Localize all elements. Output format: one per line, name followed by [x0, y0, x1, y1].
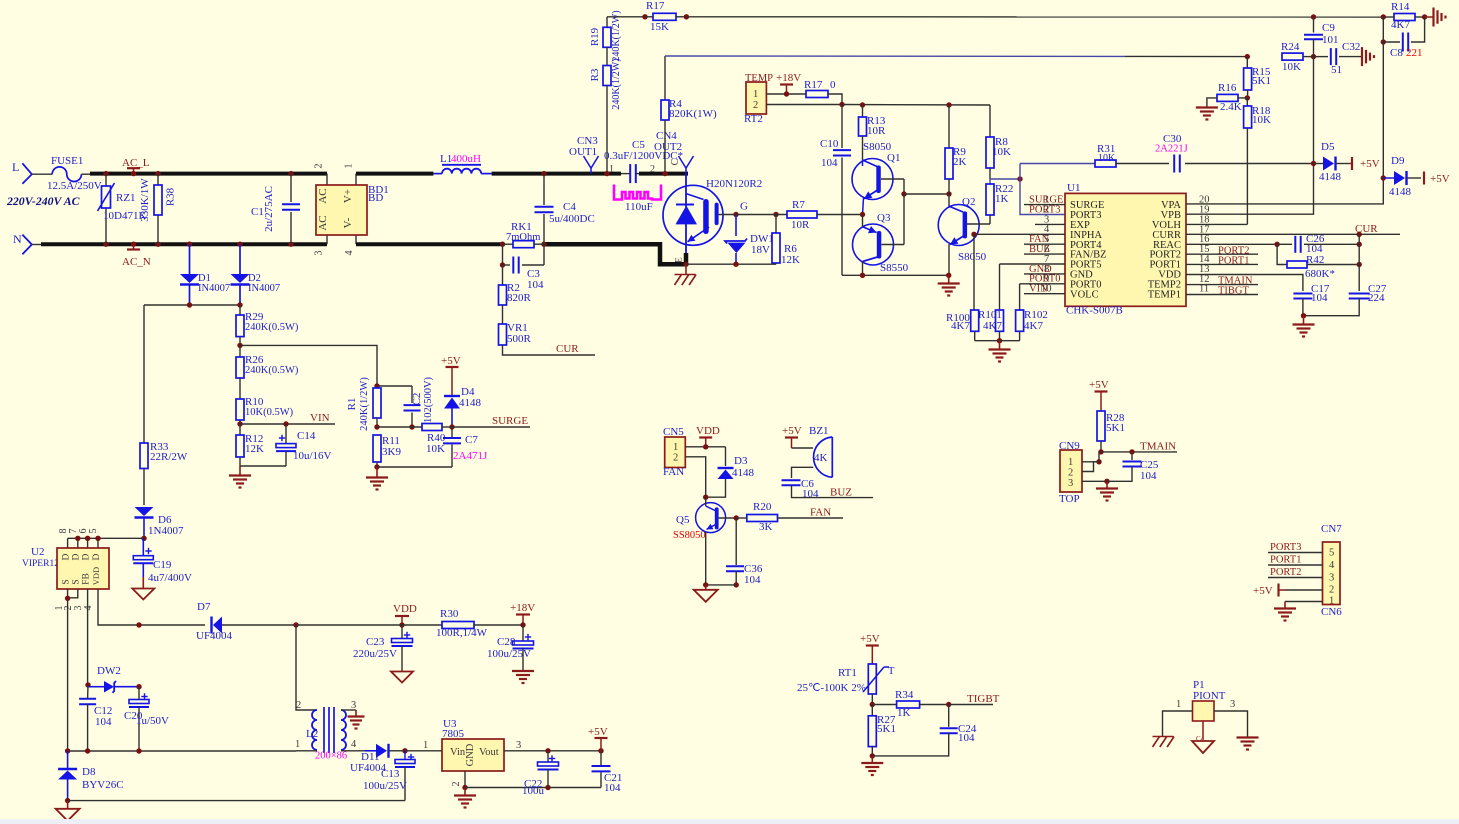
- svg-text:PORT1: PORT1: [1218, 256, 1249, 267]
- svg-text:L: L: [12, 160, 19, 174]
- wire bottom return: [68, 800, 405, 802]
- svg-text:1: 1: [673, 442, 678, 453]
- wire U3 gnd rail: [465, 785, 601, 790]
- svg-text:D9: D9: [1391, 155, 1405, 167]
- svg-text:TIBGT: TIBGT: [1218, 286, 1249, 297]
- svg-text:CN7: CN7: [1321, 523, 1342, 535]
- wire FAN net: [778, 507, 844, 519]
- capacitor C12: [79, 685, 112, 751]
- wire Q5 emitter rail: [703, 582, 736, 587]
- svg-text:S8550: S8550: [880, 262, 909, 274]
- svg-text:4: 4: [1329, 560, 1335, 571]
- resistor R13: [859, 105, 887, 160]
- resistor R20: [734, 501, 778, 533]
- wire SURGE net: [452, 415, 530, 427]
- svg-text:D5: D5: [1321, 141, 1335, 153]
- capacitor C25: [1107, 452, 1159, 482]
- resistor R1: [346, 377, 381, 431]
- resistor R17 (0R): [804, 79, 845, 107]
- net labels right: [1218, 246, 1253, 297]
- svg-text:C4: C4: [563, 201, 576, 213]
- svg-text:4K7: 4K7: [983, 320, 1002, 332]
- svg-text:C9: C9: [1322, 22, 1335, 34]
- svg-text:L2: L2: [306, 728, 318, 740]
- transistor Q5 SS8050: [673, 497, 736, 585]
- capacitor C3: [500, 244, 544, 291]
- ground (R12): [229, 466, 251, 488]
- ground (C28): [512, 670, 534, 683]
- svg-text:3: 3: [314, 251, 325, 256]
- wire N bus: [41, 242, 327, 246]
- resistor R12: [236, 424, 264, 466]
- wire CURR net: [1186, 223, 1400, 237]
- svg-text:PORT1: PORT1: [1270, 555, 1301, 566]
- capacitor C2: [377, 376, 434, 429]
- svg-text:102(500V): 102(500V): [423, 376, 434, 423]
- svg-text:104: 104: [1140, 470, 1157, 482]
- svg-text:100u: 100u: [522, 785, 545, 797]
- svg-text:2A221J: 2A221J: [1155, 144, 1188, 155]
- resistor R11: [373, 435, 452, 470]
- svg-text:R17: R17: [804, 79, 823, 91]
- svg-text:DW2: DW2: [97, 665, 121, 677]
- capacitor C17: [1293, 283, 1329, 318]
- svg-text:TIGBT: TIGBT: [967, 693, 1000, 705]
- power VDD: [393, 603, 417, 628]
- svg-text:10K: 10K: [426, 443, 445, 455]
- svg-text:1: 1: [609, 164, 614, 175]
- svg-text:221: 221: [1406, 47, 1423, 59]
- resistor R27: [868, 705, 896, 759]
- svg-text:0: 0: [830, 79, 836, 91]
- svg-text:680K*: 680K*: [1305, 268, 1335, 280]
- connector RT2 TEMP: [744, 73, 842, 125]
- transistor Q2 S8050: [938, 194, 990, 275]
- diode D9: [1383, 155, 1421, 198]
- diode D11: [350, 744, 408, 774]
- wire N bus 2: [356, 242, 503, 246]
- svg-text:10K(0.5W): 10K(0.5W): [245, 407, 294, 418]
- resistor R34: [872, 689, 951, 719]
- capacitor C32: [1314, 41, 1362, 76]
- capacitor C13: [363, 751, 415, 801]
- resistor R7: [787, 199, 863, 231]
- svg-text:1: 1: [295, 739, 300, 750]
- capacitor C7: [443, 427, 488, 467]
- wire DC+ bus 2: [492, 172, 621, 176]
- thermistor RT1: [797, 664, 895, 707]
- svg-text:CHK-S007B: CHK-S007B: [1066, 305, 1123, 317]
- svg-text:200×86: 200×86: [315, 751, 347, 762]
- svg-text:FB: FB: [82, 573, 92, 585]
- svg-text:Vin: Vin: [450, 747, 466, 758]
- capacitor C30: [1155, 133, 1314, 173]
- svg-text:1: 1: [1068, 457, 1073, 468]
- svg-text:IN4007: IN4007: [198, 283, 230, 294]
- svg-text:100R,1/4W: 100R,1/4W: [436, 627, 488, 639]
- diode D5: [1314, 141, 1350, 183]
- svg-text:2: 2: [1329, 585, 1334, 596]
- ground (C19): [132, 589, 154, 600]
- power +5V (RT1): [860, 633, 880, 664]
- svg-text:VDD: VDD: [91, 567, 101, 585]
- ground (CN9): [1096, 481, 1118, 500]
- svg-text:C1: C1: [251, 206, 264, 218]
- svg-text:2: 2: [1068, 468, 1073, 479]
- ground (D8): [56, 801, 80, 821]
- svg-text:1: 1: [423, 740, 428, 751]
- svg-text:E: E: [674, 257, 684, 263]
- svg-text:3: 3: [516, 740, 521, 751]
- svg-text:10K: 10K: [992, 146, 1011, 158]
- svg-text:VIN: VIN: [310, 412, 330, 424]
- svg-text:1: 1: [1329, 596, 1334, 607]
- power +5V (D4): [441, 355, 461, 395]
- resistor R101: [978, 264, 1004, 343]
- power +5V (R28): [1089, 379, 1109, 411]
- svg-text:104: 104: [95, 716, 112, 728]
- svg-text:R17: R17: [646, 0, 665, 12]
- power +5V (U3): [588, 726, 608, 751]
- buzzer BZ1: [782, 425, 832, 478]
- svg-text:4u7/400V: 4u7/400V: [148, 572, 192, 584]
- svg-text:AC: AC: [317, 188, 329, 203]
- svg-text:104: 104: [1311, 292, 1328, 304]
- svg-text:10R: 10R: [867, 125, 886, 137]
- svg-text:104: 104: [527, 279, 544, 291]
- input terminal L: [12, 160, 52, 184]
- svg-text:+5V: +5V: [588, 726, 608, 738]
- svg-text:R42: R42: [1306, 254, 1324, 266]
- svg-text:TOP: TOP: [1059, 493, 1080, 505]
- svg-text:V+: V+: [342, 189, 354, 203]
- svg-text:10K: 10K: [1282, 61, 1301, 73]
- svg-text:10R: 10R: [791, 219, 810, 231]
- connector P1 PIONT: [1163, 679, 1248, 743]
- svg-text:2u/275AC: 2u/275AC: [263, 186, 275, 232]
- resistor R6: [772, 212, 800, 266]
- svg-text:110uF: 110uF: [625, 201, 653, 213]
- svg-text:RZ1: RZ1: [116, 192, 136, 204]
- ground (P1 middle): [1192, 741, 1214, 753]
- resistor R4: [661, 56, 717, 176]
- ground (P1 right): [1237, 736, 1259, 738]
- svg-text:OUT1: OUT1: [569, 146, 597, 158]
- ground (CN7): [1274, 602, 1296, 621]
- svg-text:3K: 3K: [759, 521, 773, 533]
- capacitor C21: [592, 748, 623, 794]
- svg-text:+5V: +5V: [860, 633, 880, 645]
- capacitor C19: [133, 538, 192, 588]
- rheostat VR1: [499, 322, 532, 345]
- capacitor C22: [522, 748, 559, 797]
- wire R1 branch: [240, 345, 377, 386]
- svg-text:R1: R1: [346, 398, 358, 411]
- ground (U3): [454, 788, 476, 808]
- input terminal N: [13, 232, 42, 254]
- svg-text:820R: 820R: [507, 292, 532, 304]
- svg-text:U1: U1: [1067, 182, 1080, 194]
- svg-text:820K(1W): 820K(1W): [669, 108, 717, 120]
- svg-text:2: 2: [673, 453, 678, 464]
- capacitor C6: [782, 478, 874, 500]
- wire VPA vertical: [1186, 42, 1386, 204]
- svg-text:104: 104: [958, 732, 975, 744]
- svg-text:104: 104: [744, 574, 761, 586]
- svg-text:H20N120R2: H20N120R2: [706, 178, 762, 190]
- wire VOLH: [1186, 223, 1247, 225]
- capacitor C14: [240, 424, 332, 466]
- svg-text:T: T: [888, 666, 895, 677]
- ground (C32): [1361, 47, 1363, 66]
- svg-text:2.4K: 2.4K: [1220, 101, 1242, 113]
- diode D7: [136, 601, 298, 642]
- svg-text:C28: C28: [497, 636, 516, 648]
- svg-text:22R/2W: 22R/2W: [150, 451, 188, 463]
- capacitor C9: [1304, 14, 1339, 56]
- svg-text:12K: 12K: [781, 254, 800, 266]
- svg-text:1: 1: [1176, 699, 1181, 710]
- resistor R3: [589, 58, 622, 176]
- svg-text:2A471J: 2A471J: [453, 450, 488, 462]
- svg-text:1: 1: [753, 89, 758, 100]
- svg-text:VDD: VDD: [696, 425, 720, 437]
- svg-text:100u/25V: 100u/25V: [363, 780, 407, 792]
- svg-text:FUSE1: FUSE1: [51, 155, 83, 167]
- svg-text:N: N: [13, 232, 22, 246]
- svg-text:R19: R19: [589, 27, 601, 46]
- wire VPA top line 2: [686, 16, 1383, 18]
- power +5V (D9): [1424, 172, 1450, 186]
- diode D3: [703, 447, 755, 500]
- svg-text:330K/1W: 330K/1W: [139, 178, 151, 222]
- ground (R14): [1425, 8, 1446, 27]
- svg-text:D8: D8: [82, 766, 96, 778]
- svg-text:1u/50V: 1u/50V: [136, 715, 169, 727]
- ground (R101): [989, 341, 1011, 362]
- IC U2 VIPER12: [22, 529, 143, 752]
- resistor R2: [499, 265, 532, 324]
- svg-text:C32: C32: [1342, 41, 1360, 53]
- ground (L2 pin3): [348, 710, 365, 729]
- svg-text:4K7: 4K7: [1391, 19, 1410, 31]
- wire TIGBT net: [949, 693, 1000, 705]
- svg-text:R30: R30: [440, 608, 459, 620]
- resistor R22: [986, 179, 1013, 224]
- svg-text:2: 2: [753, 100, 758, 111]
- svg-text:1K: 1K: [897, 707, 911, 719]
- svg-text:10u/16V: 10u/16V: [293, 450, 332, 462]
- svg-text:104: 104: [604, 782, 621, 794]
- svg-text:RT1: RT1: [838, 667, 857, 679]
- svg-text:FAN: FAN: [810, 507, 831, 519]
- resistor R16: [1207, 82, 1247, 113]
- U1 pin 2 PORT3: [1029, 204, 1060, 215]
- svg-text:IN4007: IN4007: [248, 283, 280, 294]
- U1 pin 5 PORT4 FAN: [1024, 234, 1065, 245]
- U1 pin 6 FAN/BZ BUZ: [1024, 244, 1065, 255]
- svg-text:AC_N: AC_N: [122, 256, 151, 268]
- svg-text:GND: GND: [465, 743, 476, 766]
- svg-text:UF4004: UF4004: [196, 630, 233, 642]
- svg-text:2K: 2K: [953, 156, 967, 168]
- port AC_N: [122, 242, 151, 269]
- svg-text:Q2: Q2: [962, 196, 975, 208]
- U1 pin 7 PORT5: [1000, 254, 1065, 265]
- transformer L2: [295, 625, 365, 762]
- zener DW1: [725, 212, 774, 264]
- svg-text:VIPER12: VIPER12: [22, 559, 59, 569]
- ground (IGBT emitter): [675, 253, 697, 285]
- IGBT H20N120R2: [663, 174, 762, 265]
- bridge rectifier BD1: [314, 164, 389, 256]
- svg-text:18V: 18V: [751, 244, 770, 256]
- svg-text:240K(1/2W): 240K(1/2W): [611, 10, 622, 61]
- svg-text:TEMP1: TEMP1: [1148, 289, 1181, 300]
- capacitor C20: [124, 687, 169, 751]
- wire gate net: [686, 215, 787, 267]
- wire VDD line: [296, 624, 402, 626]
- svg-text:4148: 4148: [732, 467, 755, 479]
- svg-text:5K1: 5K1: [877, 723, 896, 735]
- svg-text:R24: R24: [1281, 41, 1300, 53]
- connector CN4 OUT2: [654, 130, 694, 174]
- svg-text:R7: R7: [792, 199, 805, 211]
- resistor R33: [140, 441, 188, 505]
- capacitor C26: [1186, 233, 1362, 255]
- wire driver gnd rail: [842, 273, 951, 278]
- svg-text:4K7: 4K7: [951, 320, 970, 332]
- svg-text:2: 2: [296, 700, 301, 711]
- svg-text:240K(1/2W): 240K(1/2W): [611, 58, 622, 109]
- svg-text:51: 51: [1331, 64, 1342, 76]
- capacitor C24: [872, 705, 977, 756]
- svg-text:4148: 4148: [1389, 186, 1412, 198]
- svg-text:C13: C13: [381, 768, 400, 780]
- resistor R24: [1281, 41, 1316, 73]
- transistor Q3 S8550: [853, 194, 909, 275]
- resistor R29: [236, 305, 299, 348]
- shunt RK1: [500, 221, 547, 248]
- svg-text:Q5: Q5: [676, 514, 690, 526]
- svg-text:10K: 10K: [1252, 114, 1271, 126]
- wire VPA top line: [607, 14, 648, 19]
- svg-text:224: 224: [1368, 292, 1385, 304]
- power +18V (R30): [510, 602, 535, 628]
- resistor R42: [1277, 244, 1362, 280]
- svg-text:V-: V-: [342, 217, 354, 228]
- svg-text:PORT2: PORT2: [1270, 567, 1301, 578]
- svg-text:4: 4: [83, 606, 94, 611]
- capacitor C28: [487, 625, 534, 670]
- svg-text:RT2: RT2: [744, 113, 763, 125]
- svg-text:25℃-100K 2%: 25℃-100K 2%: [797, 682, 866, 694]
- svg-text:VOLC: VOLC: [1070, 289, 1099, 300]
- capacitor C36: [726, 518, 763, 588]
- svg-text:500R: 500R: [507, 333, 532, 345]
- svg-text:1N4007: 1N4007: [148, 525, 184, 537]
- IC U3 7805: [405, 718, 601, 790]
- svg-text:C7: C7: [465, 434, 478, 446]
- wire DC+ bus: [356, 172, 433, 176]
- ground (R27): [861, 756, 883, 775]
- capacitor C8: [1381, 17, 1425, 59]
- svg-text:Q1: Q1: [887, 152, 900, 164]
- svg-text:+5V: +5V: [1089, 379, 1109, 391]
- U1 pin 4 INPHA: [971, 224, 1065, 237]
- svg-text:R34: R34: [895, 689, 914, 701]
- wire VDD net: [1186, 275, 1303, 292]
- wire CUR stub: [503, 343, 596, 355]
- svg-text:220u/25V: 220u/25V: [353, 648, 397, 660]
- diode D2: [231, 242, 281, 306]
- U1 right pin numbers: [1199, 195, 1210, 295]
- wire bus step under IGBT: [544, 244, 686, 264]
- capacitor C27: [1304, 234, 1387, 315]
- resistor R17 (15K): [645, 0, 689, 33]
- svg-text:TMAIN: TMAIN: [1140, 441, 1176, 453]
- U1 pin 8 GND: [1024, 264, 1065, 275]
- svg-text:10K: 10K: [1098, 153, 1116, 164]
- ground (Q5): [694, 585, 718, 602]
- svg-text:3: 3: [1230, 699, 1235, 710]
- resistor R30: [402, 608, 523, 639]
- wire L bus: [90, 172, 327, 176]
- svg-text:3: 3: [1068, 478, 1073, 489]
- svg-text:C10: C10: [820, 138, 839, 150]
- svg-text:C: C: [670, 158, 681, 165]
- power +5V (CN7): [1253, 584, 1285, 598]
- svg-text:400uH: 400uH: [451, 153, 481, 165]
- resistor R8: [986, 105, 1011, 179]
- svg-text:S8050: S8050: [958, 251, 987, 263]
- svg-text:G: G: [740, 201, 748, 213]
- svg-text:220V-240V AC: 220V-240V AC: [6, 194, 80, 208]
- fuse FUSE1: [47, 155, 102, 192]
- U1 pin 10 VOLC: [1024, 284, 1065, 295]
- svg-text:C19: C19: [153, 559, 172, 571]
- U1 pin 1 SURGE: [1024, 195, 1065, 206]
- resistor R9: [945, 105, 967, 194]
- transistor Q1 S8050: [852, 141, 904, 215]
- svg-text:AC: AC: [317, 215, 329, 230]
- resistor R26: [236, 345, 299, 399]
- svg-text:D: D: [62, 553, 72, 560]
- svg-text:2: 2: [314, 164, 325, 169]
- power +18V (RT2): [776, 72, 801, 97]
- wire SURGE blue net: [990, 164, 1095, 215]
- svg-text:D3: D3: [734, 455, 748, 467]
- connector CN3 OUT1: [569, 135, 599, 174]
- svg-text:S: S: [72, 579, 82, 584]
- power VDD (CN5): [696, 425, 720, 449]
- wire VPB vertical: [1186, 57, 1316, 215]
- diode D1: [180, 242, 230, 306]
- zener DW2: [85, 665, 141, 693]
- svg-text:+5V: +5V: [1253, 585, 1273, 597]
- svg-text:5K1: 5K1: [1252, 75, 1271, 87]
- svg-text:D7: D7: [197, 601, 211, 613]
- svg-text:SS8050: SS8050: [673, 530, 706, 541]
- wire VIN net: [240, 412, 335, 427]
- svg-text:5: 5: [88, 529, 99, 534]
- svg-text:240K(1/2W): 240K(1/2W): [359, 377, 370, 431]
- svg-text:5K1: 5K1: [1106, 422, 1125, 434]
- svg-text:4148: 4148: [459, 397, 482, 409]
- svg-text:12.5A/250V: 12.5A/250V: [47, 180, 102, 192]
- U1 right pin stubs: [1186, 254, 1258, 294]
- svg-text:S: S: [62, 579, 72, 584]
